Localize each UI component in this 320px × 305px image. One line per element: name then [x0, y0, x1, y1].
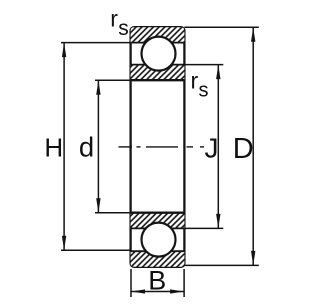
- svg-text:s: s: [118, 17, 129, 40]
- outer ring top section (hatched): [131, 27, 185, 42]
- dimension J arrow up: [216, 65, 220, 80]
- dimension J arrow down: [216, 214, 220, 229]
- inner ring top section (hatched): [131, 65, 185, 81]
- outer ring top shoulder line: [131, 42, 185, 44]
- dimension J extension line bottom: [184, 227, 223, 229]
- dimension H arrow down: [62, 236, 66, 251]
- outer ring bottom shoulder line: [131, 250, 185, 252]
- dimension J extension line top: [184, 64, 223, 66]
- dimension d arrow down: [96, 198, 100, 213]
- dimension H line: [63, 43, 65, 251]
- dimension d line: [97, 80, 99, 213]
- inner ring bottom section (hatched): [131, 213, 185, 229]
- svg-text:J: J: [205, 133, 219, 164]
- dimension D arrow down: [251, 251, 255, 266]
- svg-text:r: r: [110, 5, 118, 31]
- dimension D extension line top: [184, 26, 258, 28]
- outer ring bottom section (hatched): [131, 251, 185, 267]
- dimension B extension line right: [183, 269, 185, 297]
- dimension D arrow up: [251, 27, 255, 42]
- bearing body outline: [131, 27, 185, 267]
- centerline: [119, 146, 205, 148]
- dimension B arrow right: [170, 289, 184, 293]
- ball bottom: [142, 223, 176, 257]
- dimension d arrow up: [96, 80, 100, 95]
- dimension D extension line bottom: [184, 264, 258, 266]
- ball top: [142, 37, 176, 71]
- inner ring bottom bore edge: [131, 212, 185, 214]
- svg-text:B: B: [148, 265, 166, 295]
- dimension d extension line top: [95, 79, 131, 81]
- svg-text:s: s: [199, 80, 209, 102]
- dimension H extension line bottom: [61, 249, 131, 251]
- svg-text:r: r: [191, 68, 199, 94]
- dimension H arrow up: [62, 43, 66, 58]
- inner ring top shoulder line: [131, 64, 185, 66]
- svg-text:H: H: [44, 133, 63, 163]
- inner ring top bore edge: [131, 79, 185, 81]
- dimension d extension line bottom: [95, 212, 131, 214]
- dimension H extension line top: [61, 42, 131, 44]
- svg-text:d: d: [79, 132, 94, 163]
- inner ring bottom shoulder line: [131, 227, 185, 229]
- svg-text:D: D: [233, 133, 254, 165]
- dimension B arrow left: [131, 289, 145, 293]
- dimension B line: [131, 291, 184, 293]
- dimension J line: [217, 65, 219, 229]
- dimension D line: [252, 27, 254, 265]
- dimension B extension line left: [130, 269, 132, 297]
